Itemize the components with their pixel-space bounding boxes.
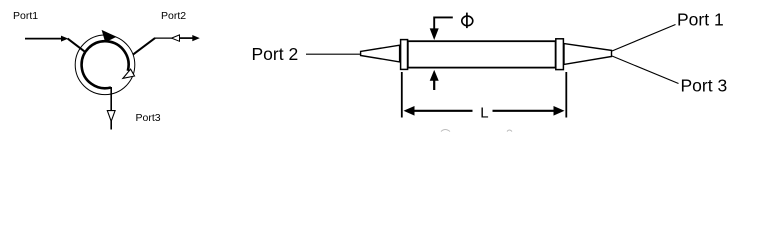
wire port2 output shaft (180, 37, 194, 39)
right end cap (556, 39, 564, 70)
svg-text:L: L (480, 104, 488, 121)
dimension phi lower tail (433, 79, 435, 90)
wire port2 lead line (306, 53, 361, 55)
arrowhead port3 hollow down (107, 111, 115, 122)
arrowhead circulator top solid (102, 30, 117, 43)
wire to Port 3 label (612, 56, 679, 84)
arrowhead circulator hollow (123, 69, 135, 78)
dimension phi leader (434, 17, 453, 30)
stray cropped glyph bottom left (441, 130, 450, 132)
svg-text:Port3: Port3 (136, 112, 161, 124)
extension line right (565, 72, 567, 118)
svg-text:Port2: Port2 (161, 10, 186, 22)
wire port3 vertical (110, 87, 112, 130)
right boot cone (564, 44, 612, 65)
left end cap (401, 40, 408, 70)
arrowhead phi up (430, 70, 439, 81)
extension line left (401, 72, 403, 118)
package body (408, 41, 556, 67)
dimension L right arrow (493, 110, 555, 112)
arrowhead port2 end solid (192, 35, 200, 41)
svg-text:Port1: Port1 (13, 10, 38, 22)
left boot cone (361, 45, 400, 62)
arrowhead phi down (430, 28, 439, 40)
dimension L left arrow (404, 106, 415, 116)
svg-text:Port 1: Port 1 (677, 9, 724, 29)
wire port2 horizontal (154, 37, 176, 39)
wire port1 input line (25, 38, 63, 40)
arrowhead port2 hollow left (172, 35, 180, 41)
circulator outer circle (75, 35, 135, 95)
stray cropped glyph bottom right (507, 130, 512, 132)
arrowhead port1 solid (61, 36, 68, 42)
wire to Port 1 label (612, 25, 676, 52)
label phi (drawn) (462, 16, 473, 26)
circulator inner arc (82, 41, 129, 88)
svg-text:Port 3: Port 3 (681, 75, 728, 95)
wire port1 diagonal (68, 39, 85, 52)
wire port2 diagonal (133, 38, 155, 55)
svg-text:Port 2: Port 2 (252, 44, 299, 64)
